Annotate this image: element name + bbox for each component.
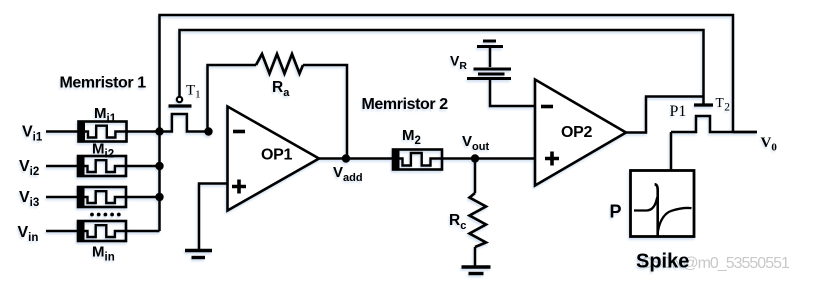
- svg-text:Vi3: Vi3: [19, 189, 39, 209]
- memristor Mi2: [78, 156, 127, 176]
- wire Mi3 to node: [126, 196, 160, 199]
- wire Min to column: [126, 230, 160, 233]
- resistor Rc branch: [470, 159, 487, 267]
- wire OP1 output to Vadd: [319, 157, 393, 160]
- transistor T2: [671, 105, 757, 132]
- spike generator box P: [631, 171, 695, 237]
- ground Rc: [462, 267, 491, 274]
- svg-text:V0: V0: [761, 135, 778, 154]
- node dot row2: [155, 162, 163, 170]
- op-amp OP1: [228, 107, 320, 211]
- svg-text:Min: Min: [92, 244, 115, 264]
- svg-text:Spike: Spike: [636, 251, 689, 273]
- wire OP1 plus input to ground: [199, 184, 228, 250]
- memristor Mi3: [78, 187, 127, 207]
- wire Vi2 to Mi2: [46, 165, 79, 168]
- transistor T1: [160, 97, 209, 132]
- wire Vi3 to Mi3: [46, 196, 79, 199]
- node dot row1: [155, 127, 163, 135]
- wire M2 to Vout to OP2 plus: [442, 157, 535, 160]
- node dot Vadd: [342, 154, 350, 162]
- svg-text:Vi2: Vi2: [19, 158, 39, 178]
- node dot T1 right: [204, 127, 212, 135]
- wire Mi1 to node: [127, 130, 160, 133]
- wire outer feedback loop top: [160, 15, 734, 132]
- svg-text:OP2: OP2: [561, 124, 593, 141]
- wire Vi1 to Mi1: [46, 130, 79, 133]
- svg-text:T2: T2: [716, 95, 731, 114]
- svg-text:Vadd: Vadd: [333, 164, 363, 184]
- wire VR to OP2 minus: [490, 80, 535, 106]
- svg-text:P: P: [610, 202, 622, 222]
- svg-text:Rc: Rc: [449, 212, 466, 232]
- wire OP2 output to T2 gate: [626, 97, 704, 133]
- ground OP1: [185, 251, 212, 258]
- node dot row3: [155, 193, 163, 201]
- svg-text:Mi2: Mi2: [92, 141, 114, 161]
- svg-text:Memristor 1: Memristor 1: [60, 75, 147, 92]
- memristor M2: [393, 150, 443, 170]
- svg-text:VR: VR: [450, 53, 467, 73]
- svg-text:Ra: Ra: [272, 79, 290, 99]
- resistor Ra feedback branch: [208, 54, 348, 159]
- node dot Vout: [471, 154, 479, 162]
- svg-text:Memristor 2: Memristor 2: [362, 96, 449, 113]
- wire Mi2 to node: [126, 165, 160, 168]
- wire inner feedback loop top: [180, 30, 704, 104]
- svg-text:T1: T1: [186, 83, 201, 101]
- svg-text:Vout: Vout: [462, 133, 489, 153]
- svg-text:Vin: Vin: [18, 224, 39, 244]
- svg-text:M2: M2: [402, 127, 421, 147]
- op-amp OP2: [535, 80, 626, 186]
- memristor Mi1: [79, 122, 128, 142]
- wire input summing column: [158, 132, 161, 232]
- wire Vin to Min: [46, 230, 79, 233]
- wire T2 source down to P box: [670, 132, 673, 171]
- svg-text:Vi1: Vi1: [22, 124, 43, 144]
- svg-text:P1: P1: [670, 103, 687, 120]
- dots ellipsis between Mi3 and Min: [90, 213, 121, 217]
- svg-text:OP1: OP1: [261, 147, 293, 164]
- battery VR: [467, 41, 511, 79]
- wire T2 drain to V0: [733, 131, 757, 134]
- memristor Min: [78, 221, 127, 241]
